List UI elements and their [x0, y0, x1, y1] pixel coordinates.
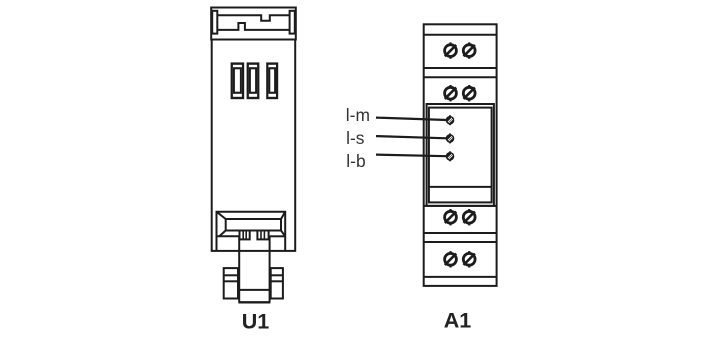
- A1 section line 7: [424, 276, 497, 278]
- svg-text:U1: U1: [242, 310, 270, 332]
- plug foot top line: [239, 289, 269, 291]
- DIN clip left tab: [212, 11, 217, 34]
- terminal screw row1 left: [445, 42, 457, 58]
- socket bevel diagonal top-left: [217, 212, 226, 219]
- socket bevel diagonal top-right: [281, 212, 285, 219]
- A1 section line 4: [424, 205, 497, 207]
- device A1 outline: [424, 24, 497, 286]
- DIN clip band top edge with notch: [217, 15, 289, 20]
- leader wire l-m: [376, 118, 447, 120]
- svg-text:l-m: l-m: [346, 105, 370, 125]
- pin l-b: [446, 151, 455, 161]
- pin l-s: [446, 133, 455, 143]
- A1 section line 1: [424, 34, 497, 36]
- A1 section line 3: [424, 76, 497, 78]
- vent slot 1: [231, 62, 245, 99]
- leader wire l-s: [376, 136, 447, 138]
- plug column left side: [238, 236, 240, 302]
- leader wire l-b: [376, 155, 447, 157]
- terminal screw row2 left: [445, 85, 457, 101]
- side tab left: [224, 268, 238, 298]
- terminal screw row3 left: [445, 209, 457, 225]
- terminal screw row1 right: [463, 42, 475, 58]
- contact block right: [257, 231, 268, 240]
- A1 section line 2: [424, 67, 497, 69]
- socket right shelf: [270, 235, 285, 237]
- vent slot 2: [247, 62, 260, 99]
- A1 front panel inner: [429, 108, 492, 203]
- pin l-m: [446, 115, 455, 125]
- socket bevel diagonal bottom-right: [281, 231, 285, 237]
- vent slot 3: [266, 62, 278, 99]
- socket inner face: [226, 219, 281, 231]
- terminal screw row3 right: [463, 209, 475, 225]
- device U1 body: [212, 40, 296, 251]
- svg-text:l-s: l-s: [346, 128, 365, 148]
- A1 front panel outer: [427, 104, 494, 206]
- A1 section line 5: [424, 232, 497, 234]
- contact block left: [240, 231, 250, 240]
- DIN clip right tab: [290, 11, 295, 34]
- A1 section line 6: [424, 241, 497, 243]
- socket left shelf: [217, 235, 239, 237]
- DIN clip band bottom edge with notch: [217, 23, 289, 30]
- plug foot bottom line: [238, 301, 270, 303]
- terminal screw row4 right: [463, 251, 475, 267]
- plug column right side: [269, 236, 271, 302]
- device U1 top cap: [211, 8, 296, 40]
- A1 panel divider: [429, 186, 492, 188]
- terminal screw row4 left: [445, 251, 457, 267]
- svg-text:l-b: l-b: [346, 151, 365, 171]
- bottom socket outer walls: [217, 212, 286, 251]
- socket bevel diagonal bottom-left: [219, 231, 225, 237]
- svg-text:A1: A1: [444, 308, 472, 332]
- terminal screw row2 right: [463, 85, 475, 101]
- side tab right: [271, 268, 283, 298]
